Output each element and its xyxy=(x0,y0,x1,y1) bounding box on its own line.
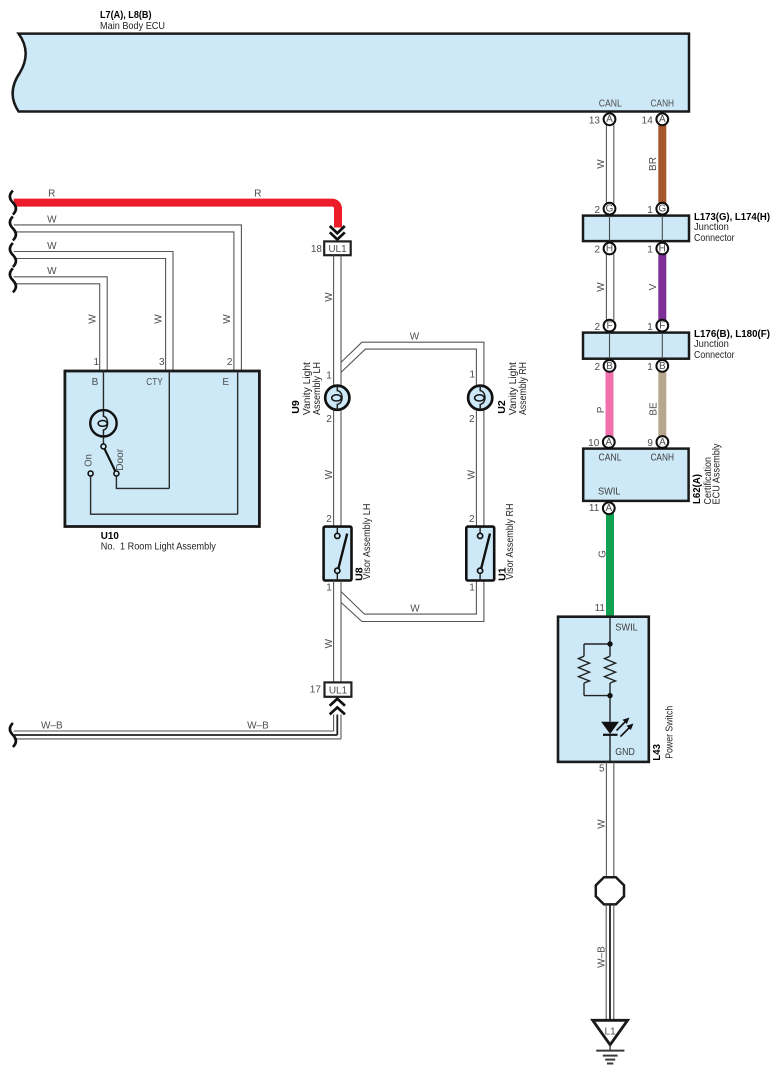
svg-text:W: W xyxy=(47,241,57,252)
svg-text:W: W xyxy=(410,332,420,343)
wire BE xyxy=(658,372,666,437)
svg-text:W: W xyxy=(467,469,478,479)
svg-text:1: 1 xyxy=(93,357,99,368)
svg-text:A: A xyxy=(605,437,612,448)
svg-text:W: W xyxy=(410,604,420,615)
connector 18 UL1 xyxy=(324,241,351,255)
internal circuit of L43 xyxy=(579,617,616,762)
junction connector L176(B), L180(F) xyxy=(583,333,689,359)
vanity light assembly LH U9 (lamp) xyxy=(325,385,349,410)
svg-text:Assembly RH: Assembly RH xyxy=(517,362,529,415)
svg-text:2: 2 xyxy=(594,205,600,216)
svg-text:1: 1 xyxy=(647,362,653,373)
svg-text:SWIL: SWIL xyxy=(615,623,638,634)
svg-text:A: A xyxy=(659,437,666,448)
U10 switch xyxy=(101,444,106,449)
torn end squiggle R xyxy=(10,191,16,215)
svg-text:14: 14 xyxy=(642,116,654,127)
svg-text:1: 1 xyxy=(469,583,475,594)
wire W to U10 pin 1 (B) xyxy=(14,277,108,371)
svg-text:Power Switch: Power Switch xyxy=(664,706,676,759)
vanity light assembly RH U2 (lamp) xyxy=(468,385,492,410)
svg-text:CANL: CANL xyxy=(599,99,622,110)
chevron arrows into 17 UL1 xyxy=(330,699,345,715)
svg-text:W–B: W–B xyxy=(597,946,608,968)
svg-text:18: 18 xyxy=(311,244,323,255)
svg-text:P: P xyxy=(596,406,607,413)
pin 11 (A) xyxy=(589,502,615,514)
torn end squiggle xyxy=(10,243,16,267)
wire W-B horizontal to torn edge xyxy=(14,731,341,739)
No. 1 Room Light Assembly U10 xyxy=(65,371,260,527)
wire W U9 to U8 xyxy=(334,410,341,526)
pin 2 (F) xyxy=(594,320,615,333)
svg-text:2: 2 xyxy=(326,414,332,425)
svg-text:10: 10 xyxy=(588,438,600,449)
svg-text:B: B xyxy=(606,361,613,372)
svg-text:A: A xyxy=(659,114,666,125)
U10 lamp xyxy=(90,410,116,436)
svg-text:CANH: CANH xyxy=(651,99,675,110)
wire stub below arrows xyxy=(334,715,341,739)
svg-text:CTY: CTY xyxy=(146,377,163,388)
svg-text:W–B: W–B xyxy=(41,721,63,732)
svg-text:A: A xyxy=(605,503,612,514)
svg-text:A: A xyxy=(606,114,613,125)
wire G (SWIL) xyxy=(606,514,614,618)
resistor left xyxy=(579,656,590,683)
svg-text:L43: L43 xyxy=(651,744,663,761)
svg-text:G: G xyxy=(606,204,614,215)
svg-text:On: On xyxy=(83,454,94,467)
resistor right xyxy=(605,656,616,683)
svg-text:W: W xyxy=(596,282,607,292)
pin 9 (A) xyxy=(647,436,668,449)
svg-text:1: 1 xyxy=(326,583,332,594)
svg-text:2: 2 xyxy=(594,322,600,333)
svg-text:2: 2 xyxy=(227,357,233,368)
svg-text:2: 2 xyxy=(594,245,600,256)
svg-text:UL1: UL1 xyxy=(329,685,348,696)
torn end squiggle xyxy=(10,268,16,292)
svg-text:W: W xyxy=(596,159,607,169)
svg-text:B: B xyxy=(659,361,666,372)
svg-text:E: E xyxy=(222,377,229,388)
svg-text:BR: BR xyxy=(648,157,659,171)
svg-text:1: 1 xyxy=(469,370,475,381)
wire W from 18 UL1 to U9 xyxy=(334,255,341,385)
U10 internal wiring xyxy=(91,371,238,514)
wire W U8 to 17 UL1 xyxy=(334,581,341,683)
svg-text:5: 5 xyxy=(599,764,605,775)
svg-text:W: W xyxy=(324,469,335,479)
svg-text:Main Body ECU: Main Body ECU xyxy=(100,20,165,32)
ground L1 xyxy=(593,1020,628,1045)
LED arrows xyxy=(617,721,631,737)
svg-text:11: 11 xyxy=(589,503,600,514)
svg-text:W–B: W–B xyxy=(247,721,269,732)
svg-text:L7(A), L8(B): L7(A), L8(B) xyxy=(100,9,152,21)
svg-text:Connector: Connector xyxy=(694,232,735,244)
pin 2 (H) xyxy=(594,243,615,256)
svg-text:13: 13 xyxy=(589,116,601,127)
branch wire W to U2 (top) xyxy=(341,342,484,385)
wire R (red) from torn edge to 18 UL1 xyxy=(14,203,338,228)
svg-text:3: 3 xyxy=(159,357,165,368)
wire W-B to ground xyxy=(606,905,614,1021)
svg-text:G: G xyxy=(658,204,666,215)
svg-text:Door: Door xyxy=(115,448,126,471)
svg-text:17: 17 xyxy=(310,684,322,695)
torn end squiggle xyxy=(10,216,16,240)
svg-text:1: 1 xyxy=(647,245,653,256)
wire V xyxy=(658,254,666,320)
svg-text:Visor Assembly LH: Visor Assembly LH xyxy=(361,504,373,580)
svg-text:9: 9 xyxy=(647,438,653,449)
svg-text:F: F xyxy=(606,321,612,332)
visor assembly RH U1 (switch) xyxy=(466,527,494,581)
svg-text:CANL: CANL xyxy=(599,453,622,464)
svg-text:ECU Assembly: ECU Assembly xyxy=(711,443,723,505)
svg-text:CANH: CANH xyxy=(650,453,674,464)
svg-text:UL1: UL1 xyxy=(328,244,347,255)
svg-text:SWIL: SWIL xyxy=(598,487,621,498)
connector 17 UL1 xyxy=(325,682,352,696)
svg-text:2: 2 xyxy=(594,362,600,373)
Certification ECU Assembly L62(A) xyxy=(583,449,688,501)
svg-text:R: R xyxy=(254,189,261,200)
svg-text:No. 1 Room Light Assembly: No. 1 Room Light Assembly xyxy=(101,541,217,553)
Power Switch L43 xyxy=(558,617,649,762)
svg-text:L1: L1 xyxy=(605,1027,617,1038)
visor assembly LH U8 (switch) xyxy=(324,527,352,581)
svg-text:H: H xyxy=(659,243,666,254)
svg-text:W: W xyxy=(154,314,165,324)
svg-text:W: W xyxy=(47,266,57,277)
Main Body ECU box L7(A), L8(B) xyxy=(13,34,689,112)
svg-text:GND: GND xyxy=(615,747,635,758)
pin 14 (A) xyxy=(642,113,669,126)
octagon connector xyxy=(596,877,624,904)
pin 13 (A) xyxy=(589,113,616,126)
pin 1 (G) xyxy=(647,203,668,216)
pin 2 (G) xyxy=(594,203,615,216)
chevron arrows into 18 UL1 xyxy=(330,226,345,240)
pin 1 (B) xyxy=(647,360,668,373)
svg-text:W: W xyxy=(324,638,335,648)
pin 1 (F) xyxy=(647,320,668,333)
svg-text:Assembly LH: Assembly LH xyxy=(311,362,323,415)
ground symbol xyxy=(596,1045,624,1064)
torn end squiggle W-B xyxy=(10,723,16,747)
wire W to U10 pin 2 (E) xyxy=(14,225,242,371)
svg-text:V: V xyxy=(648,283,659,290)
junction dots xyxy=(607,641,612,646)
svg-text:1: 1 xyxy=(647,205,653,216)
svg-text:W: W xyxy=(47,214,57,225)
svg-text:W: W xyxy=(88,314,99,324)
svg-text:1: 1 xyxy=(647,322,653,333)
svg-text:Connector: Connector xyxy=(694,349,735,361)
wire W U2 to U1 xyxy=(476,410,484,526)
svg-text:G: G xyxy=(597,550,608,558)
pin 1 (H) xyxy=(647,243,668,256)
svg-text:2: 2 xyxy=(469,514,475,525)
svg-text:11: 11 xyxy=(595,603,606,614)
wire P xyxy=(606,372,614,437)
wire W (CANL to junction) xyxy=(606,125,613,204)
svg-text:B: B xyxy=(92,377,99,388)
svg-text:W: W xyxy=(222,314,233,324)
pin 10 (A) xyxy=(588,436,615,449)
wire W (H to F) xyxy=(606,254,613,320)
svg-text:2: 2 xyxy=(469,414,475,425)
svg-text:W: W xyxy=(597,819,608,829)
pin 2 (B) xyxy=(594,360,615,373)
svg-text:R: R xyxy=(48,189,55,200)
branch wire W to U1 (bottom) xyxy=(341,581,484,622)
svg-text:H: H xyxy=(606,243,613,254)
svg-text:BE: BE xyxy=(648,402,659,416)
svg-text:1: 1 xyxy=(326,371,332,382)
svg-text:F: F xyxy=(659,321,665,332)
svg-text:2: 2 xyxy=(326,514,332,525)
wire W to U10 pin 3 (CTY) xyxy=(14,252,173,372)
LED xyxy=(601,722,619,734)
svg-text:Visor Assembly RH: Visor Assembly RH xyxy=(504,504,516,580)
wire BR xyxy=(658,125,666,204)
wire W below power switch xyxy=(606,762,613,878)
junction connector L173(G), L174(H) xyxy=(583,216,689,242)
svg-text:W: W xyxy=(324,292,335,302)
